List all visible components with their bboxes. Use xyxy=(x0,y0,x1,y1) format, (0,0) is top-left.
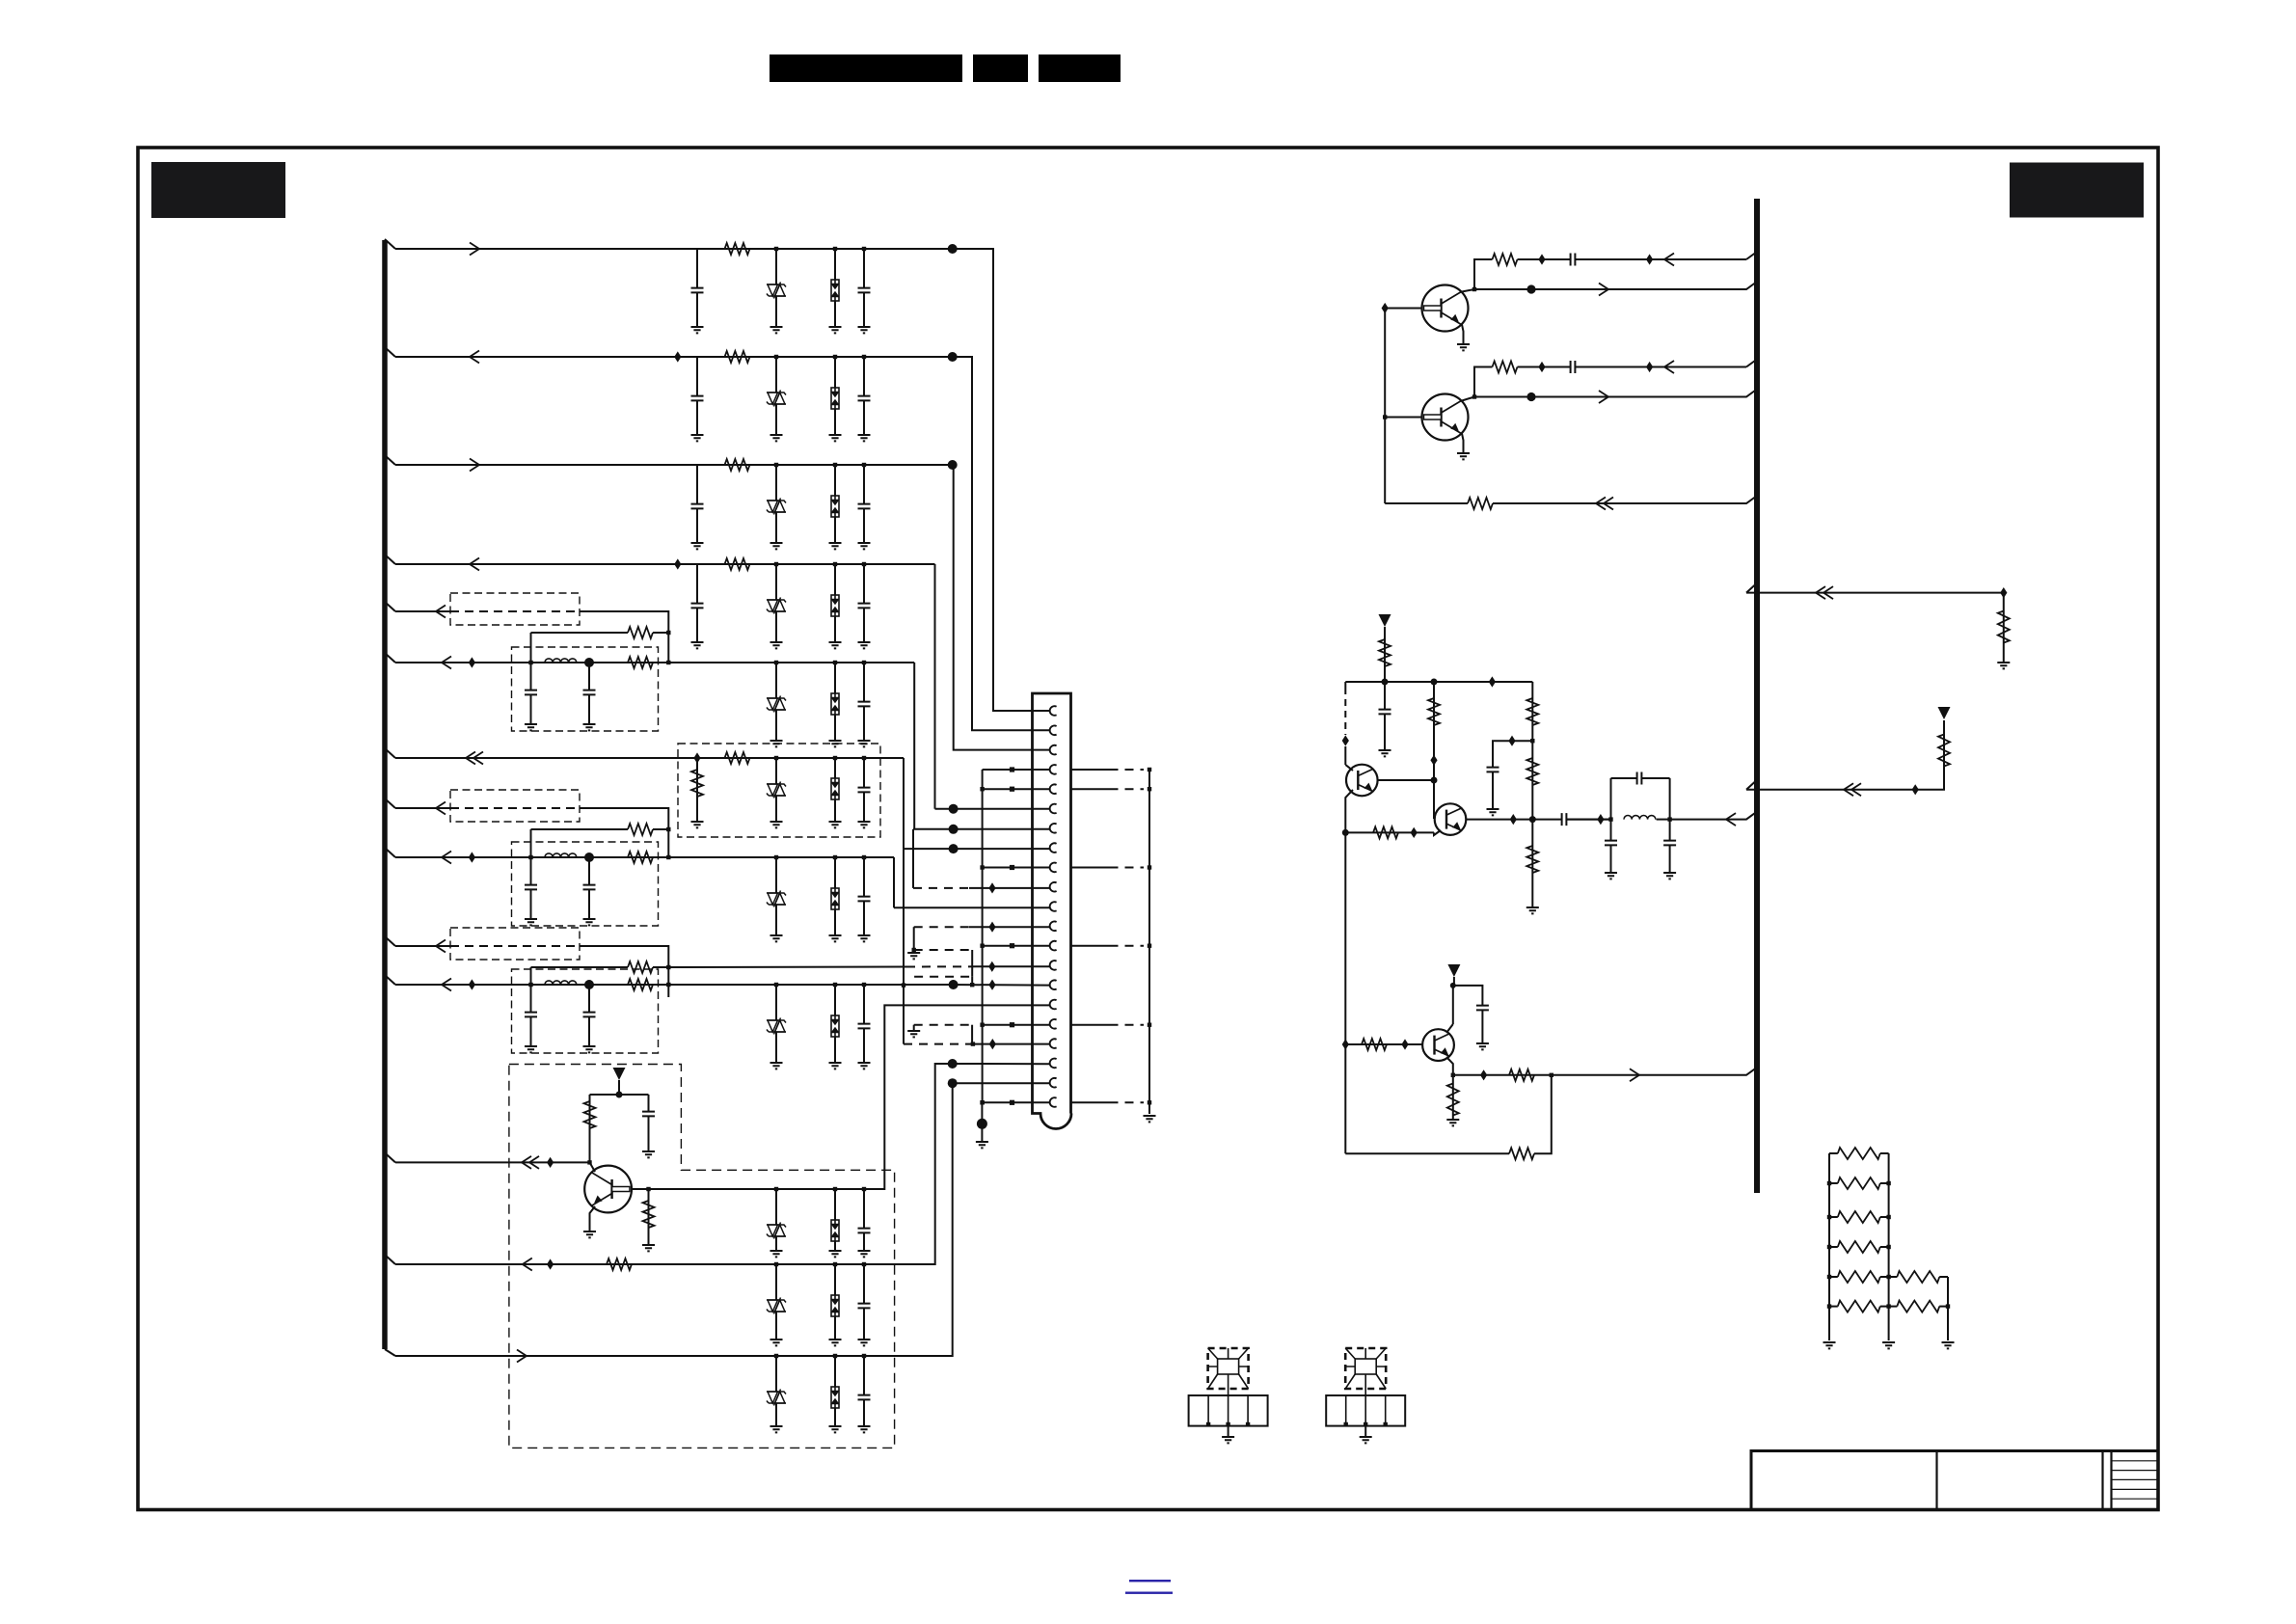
node C1 cap xyxy=(862,756,866,760)
node row net IN1 cap xyxy=(862,247,866,251)
cap lead row net IN3 xyxy=(696,465,698,543)
amp in wire xyxy=(1670,812,1757,820)
wire row net IN3 xyxy=(395,464,953,466)
ground q319.5 xyxy=(1457,344,1470,350)
ground row net IN4 c xyxy=(829,642,842,648)
ladder lead l1 xyxy=(1829,1152,1838,1154)
junction amp out chain xyxy=(1529,816,1536,823)
net tap pin12 xyxy=(988,922,995,933)
pin 6 contact xyxy=(1050,804,1057,814)
arrow q319.5 in xyxy=(1664,254,1674,266)
junction pin wire y880.1 xyxy=(949,844,959,853)
net tap left rail xyxy=(1342,735,1349,745)
ladder lead r6 xyxy=(1880,1306,1889,1308)
resistor R-c2 xyxy=(1526,758,1538,785)
filter FL1 pad c xyxy=(1246,1422,1250,1426)
junction pin wire y838.7 xyxy=(949,804,959,814)
row wire q319.5 out xyxy=(1474,282,1757,289)
wire pin13 shield dashed xyxy=(1110,945,1145,947)
ground row net IN2 a xyxy=(691,435,704,441)
riser net Y1 to pin7 xyxy=(913,663,915,829)
amp out wire 1 xyxy=(1467,819,1611,821)
tvs lead net T1 xyxy=(775,1189,777,1251)
fb wire bottom l xyxy=(1345,1152,1509,1154)
suppressor D-box row net IN3 xyxy=(831,496,839,517)
node net T2 cap xyxy=(862,1262,866,1266)
wire pin21 xyxy=(983,1101,1049,1103)
arrow net C1 xyxy=(466,752,475,765)
capacitor C-a row net IN2 xyxy=(691,395,704,400)
wire pin11 xyxy=(894,907,1049,908)
wire Q3 out xyxy=(1453,1068,1757,1075)
bus stub row net IN3 xyxy=(385,455,395,465)
junction lad r4 xyxy=(1886,1245,1890,1249)
base rail wire xyxy=(1384,309,1386,504)
capacitor C-b row net IN4 xyxy=(858,603,871,608)
ground pin17 grp xyxy=(907,1031,920,1037)
resistor R row net IN2 xyxy=(725,351,750,363)
pin 1 contact xyxy=(1050,706,1057,716)
pin 9 contact xyxy=(1050,863,1057,873)
transistor Q4 xyxy=(584,1166,632,1213)
wire net Y3 xyxy=(395,984,949,986)
arrow feedback xyxy=(1596,498,1606,510)
emitter wire Q1m xyxy=(1345,790,1353,832)
suppressor D-box C1 xyxy=(831,778,839,799)
arrow net AV1 xyxy=(436,606,446,618)
net tap q319.5 a xyxy=(1538,254,1545,264)
wire net T1 base xyxy=(395,1161,590,1163)
arrow net T2 xyxy=(523,1259,532,1271)
ground net T1 d xyxy=(858,1251,871,1257)
node net T3 tvs xyxy=(774,1354,778,1358)
cap-b lead net T2 xyxy=(863,1264,865,1340)
box diode lead row net IN1 xyxy=(834,249,836,327)
junction shield pin21 xyxy=(1148,1100,1151,1104)
node net Y1 tvs xyxy=(774,661,778,664)
ground filter r xyxy=(1663,873,1676,879)
cap lead net Y2 b xyxy=(588,857,590,919)
wire pin17 shield stub xyxy=(1071,1024,1110,1026)
chain wire vert xyxy=(1531,682,1533,907)
node row net IN2 cap xyxy=(862,355,866,359)
ground net T2 d xyxy=(858,1340,871,1345)
filter FL1 gnd lead xyxy=(1228,1426,1229,1436)
capacitor C-a row net IN3 xyxy=(691,503,704,508)
junction riser p15 row xyxy=(902,983,905,987)
filter FL1 pad b xyxy=(1226,1422,1229,1426)
capacitor C-Q4 xyxy=(642,1111,655,1116)
node net Y2 out xyxy=(666,855,670,859)
ground net T2 c xyxy=(829,1340,842,1345)
node Q4 base xyxy=(646,1187,650,1191)
ground filter FL2 xyxy=(1360,1437,1372,1443)
ladder lead r3 xyxy=(1880,1216,1889,1218)
cap-b lead net Y2 xyxy=(863,857,865,935)
chain wire q319.5 2 xyxy=(1576,258,1746,260)
tvs lead net T3 xyxy=(775,1356,777,1426)
node Q4 collector xyxy=(587,1160,591,1164)
pin 20 contact xyxy=(1050,1078,1057,1088)
ladder lead l2 xyxy=(1829,1182,1838,1184)
hyperlink underline 1 xyxy=(1129,1580,1171,1582)
tap pin21 xyxy=(1010,1100,1014,1105)
node collector q319.5 xyxy=(1472,287,1476,291)
res lead C1 xyxy=(696,758,698,822)
filter cap lead l xyxy=(1610,846,1612,872)
node net Y1 box xyxy=(833,661,837,664)
wire net AV2 boxed xyxy=(450,807,580,809)
filter right vert xyxy=(1669,778,1671,841)
suppressor D-box net Y3 xyxy=(831,1015,839,1037)
capacitor C-f1 net Y2 xyxy=(525,884,537,889)
cap-b lead net Y1 xyxy=(863,663,865,741)
capacitor C-b net T1 xyxy=(858,1228,871,1232)
supply rail Q4 xyxy=(590,1094,649,1096)
suppressor diode D row net IN2 xyxy=(767,391,786,407)
junction riser pin13 xyxy=(980,944,984,948)
node net Y1 out xyxy=(666,661,670,664)
resistor R-f net Y3 xyxy=(628,979,653,990)
tap pin5 xyxy=(1010,787,1014,792)
tvs lead net Y1 xyxy=(775,663,777,741)
junction Q3 fb xyxy=(1550,1073,1553,1077)
ground net Y2 f2 xyxy=(583,919,596,925)
branch wire cap xyxy=(1493,741,1532,808)
net tap rail Q3 xyxy=(1342,1039,1349,1049)
ground C1 d xyxy=(858,822,871,827)
pin 21 contact xyxy=(1050,1097,1057,1107)
junction row IN1 xyxy=(948,244,958,254)
suppressor D-box net T2 xyxy=(831,1295,839,1316)
resistor R-Q3o xyxy=(1509,1069,1534,1081)
wire net AV3 to pin14 a xyxy=(668,966,906,969)
collector wire Q3 xyxy=(1452,986,1454,1024)
capacitor C-fl xyxy=(1605,840,1617,845)
bus stub row net IN2 xyxy=(385,347,395,357)
ground filter l xyxy=(1605,873,1617,879)
wire pin17 grp drop xyxy=(971,1025,973,1044)
node row net IN1 box xyxy=(833,247,837,251)
net tap pin18 xyxy=(989,1039,996,1049)
ground C1 b xyxy=(770,822,783,827)
ground Q3 e xyxy=(1446,1120,1459,1125)
node bypass net AV2 xyxy=(666,827,670,831)
node net T3 box xyxy=(833,1354,837,1358)
wire pin18 xyxy=(966,1043,1049,1045)
cap-b lead row net IN1 xyxy=(863,249,865,327)
res lead sense1 xyxy=(2003,593,2005,662)
junction pin18 jog xyxy=(971,1042,975,1045)
bus stub net AV3 xyxy=(385,936,395,946)
arrow net Y1 xyxy=(442,657,451,669)
capacitor C-b row net IN2 xyxy=(858,395,871,400)
resistor R-s1 xyxy=(1998,611,2010,643)
net tap amp out a xyxy=(1510,814,1517,825)
wire sense2 xyxy=(1746,720,1944,790)
ground filter FL1 xyxy=(1222,1437,1234,1443)
junction shield pin4 xyxy=(1148,768,1151,771)
ladder lead r2 xyxy=(1880,1182,1889,1184)
suppressor D-box net Y2 xyxy=(831,888,839,909)
ground shield rail xyxy=(1144,1116,1156,1122)
riser net Y2 to pin11 xyxy=(893,857,895,907)
emitter wire Q4 xyxy=(590,1206,596,1232)
ground row net IN2 b xyxy=(770,435,783,441)
ground stub pin17 grp xyxy=(913,1025,915,1030)
junction net T2 pin19 xyxy=(948,1059,958,1069)
ground net Y1 f1 xyxy=(525,724,537,730)
arrow q432.5 out xyxy=(1599,391,1608,403)
connector J1 body xyxy=(1033,693,1072,1129)
wire pin9 shield stub xyxy=(1071,867,1110,869)
net tap amp out b xyxy=(1597,814,1604,825)
resistor R-fb2 xyxy=(1373,826,1398,838)
collector wire q319.5 xyxy=(1474,259,1493,289)
filter FL2 filter block xyxy=(1326,1395,1405,1426)
pin 7 contact xyxy=(1050,824,1057,833)
resistor R-byp net AV2 xyxy=(628,824,653,835)
filter FL1 pad a xyxy=(1206,1422,1210,1426)
node collector q432.5 xyxy=(1472,394,1476,398)
node C1 tvs xyxy=(774,756,778,760)
ground row net IN3 c xyxy=(829,543,842,549)
wire net AV3 to pin14 b xyxy=(976,965,1049,967)
ladder lead l4 xyxy=(1829,1246,1838,1248)
junction lad l2 xyxy=(1827,1181,1831,1185)
wire pin15 jog xyxy=(971,977,973,986)
ground branch xyxy=(1487,809,1499,815)
pin 12 contact xyxy=(1050,922,1057,932)
ground net Y1 c xyxy=(829,741,842,746)
capacitor C-ch q432.5 xyxy=(1570,361,1575,373)
junction divider base xyxy=(1431,777,1438,784)
transistor Q2m xyxy=(1435,803,1467,835)
ground net T2 b xyxy=(770,1340,783,1345)
ladder rail 1 xyxy=(1828,1153,1830,1340)
bypass vert net AV1 xyxy=(530,633,532,663)
junction shield pin13 xyxy=(1148,944,1151,948)
bus stub sense2 xyxy=(1746,780,1757,790)
wire pin4 shield dashed xyxy=(1110,769,1145,771)
dashed filter box net Y2 xyxy=(512,842,659,926)
bus stub sense1 xyxy=(1746,583,1757,593)
transistor Q1m xyxy=(1346,765,1378,797)
supply lead amp xyxy=(1384,627,1386,682)
ground row net IN1 d xyxy=(858,327,871,333)
wire net T2 pin19 xyxy=(953,1063,1049,1065)
collector diag q319.5 xyxy=(1462,289,1474,292)
wire row net IN4 xyxy=(395,563,935,565)
capacitor C-fr xyxy=(1663,840,1676,845)
ground net Y3 c xyxy=(829,1063,842,1069)
ladder lead l5 xyxy=(1829,1276,1838,1278)
net tap divider xyxy=(1430,755,1437,766)
pin 19 contact xyxy=(1050,1059,1057,1069)
wire net T2 to riser xyxy=(395,1064,953,1264)
capacitor C-f1 net Y1 xyxy=(525,690,537,694)
ground sense1 xyxy=(1997,663,2010,668)
wire pin17 grp dashed xyxy=(914,1024,972,1026)
ground net T1 c xyxy=(829,1251,842,1257)
bus stub net C1 xyxy=(385,748,395,758)
resistor R-byp net AV1 xyxy=(628,627,653,638)
riser net IN1 to pin1 xyxy=(953,249,1049,711)
wire net AV3 to pin14 dashed xyxy=(906,965,976,967)
ground pin12 xyxy=(907,953,920,959)
node row net IN3 tvs xyxy=(774,463,778,467)
bus stub net AV1 xyxy=(385,602,395,611)
junction lad r5 xyxy=(1886,1275,1890,1279)
wire pin12 dashed xyxy=(914,926,969,928)
capacitor C C1 xyxy=(858,787,871,792)
junction lad r3 xyxy=(1886,1215,1890,1219)
junction shield pin17 xyxy=(1148,1023,1151,1027)
wire pin13 xyxy=(983,945,1049,947)
net tap sense2 xyxy=(1912,784,1919,795)
tap pin13 xyxy=(1010,943,1014,948)
junction Q4 supply xyxy=(616,1092,623,1098)
suppressor D C1 xyxy=(767,782,786,798)
ground Q4 e xyxy=(583,1232,596,1237)
box diode lead row net IN3 xyxy=(834,465,836,543)
net tap row net IN4 xyxy=(674,558,681,569)
box diode lead net T2 xyxy=(834,1264,836,1340)
net tap q319.5 b xyxy=(1646,254,1653,264)
riser net IN4 to pin6 xyxy=(934,564,936,809)
arrow net AV3 xyxy=(436,940,446,953)
ground net Y3 d xyxy=(858,1063,871,1069)
ground net T3 b xyxy=(770,1426,783,1432)
base wire q319.5 xyxy=(1385,308,1422,310)
wire net Y1 xyxy=(395,662,914,663)
node net Y3 in xyxy=(528,983,532,987)
feedback wire left xyxy=(1385,502,1468,504)
chain wire q432.5 2 xyxy=(1576,366,1746,368)
wire net AV3 xyxy=(395,945,450,947)
ladder lead r5 xyxy=(1880,1276,1889,1278)
ground stub pin21 xyxy=(981,1102,983,1141)
cap lead net Y3 a xyxy=(530,985,532,1046)
resistor R-lad1 xyxy=(1838,1148,1880,1159)
bus kink q319.5 xyxy=(1746,252,1757,259)
base wire Q3 xyxy=(1345,1043,1423,1045)
node row net IN4 cap xyxy=(862,562,866,566)
cap lead net Y1 b xyxy=(588,663,590,724)
ground net T3 c xyxy=(829,1426,842,1432)
pin 11 contact xyxy=(1050,902,1057,911)
junction lad l3 xyxy=(1827,1215,1831,1219)
transistor Q q319.5 xyxy=(1422,285,1469,332)
bus stub net T3 xyxy=(385,1349,395,1356)
node row net IN3 box xyxy=(833,463,837,467)
ground row net IN1 c xyxy=(829,327,842,333)
wire sense1 xyxy=(1746,592,2004,594)
capacitor C-b net T3 xyxy=(858,1394,871,1399)
supply flag Q3 xyxy=(1447,964,1460,977)
node net T1 cap xyxy=(862,1187,866,1191)
filter FL2 gnd lead xyxy=(1364,1426,1366,1436)
dashed filter box net Y3 xyxy=(512,969,659,1053)
cap lead net Y2 a xyxy=(530,857,532,919)
collector link Q1m xyxy=(1345,765,1353,771)
node net Y2 box xyxy=(833,855,837,859)
suppressor diode D net Y3 xyxy=(767,1018,786,1035)
junction q319.5 xyxy=(1526,284,1535,293)
tap pin4 xyxy=(1010,767,1014,771)
filter FL2 body xyxy=(1345,1348,1386,1395)
resistor R-Q3f xyxy=(1509,1148,1534,1159)
net tap pin15 xyxy=(988,980,995,990)
junction lad r6 xyxy=(1886,1304,1890,1308)
ladder lead l3 xyxy=(1829,1216,1838,1218)
tvs lead net T2 xyxy=(775,1264,777,1340)
wire net AV3 boxed xyxy=(450,945,580,947)
ground net Y1 b xyxy=(770,741,783,746)
wire net AV1 drop xyxy=(580,611,668,663)
wire net T3 pin20 xyxy=(953,1082,1049,1084)
redacted title bar 2 xyxy=(973,55,1028,83)
ground Q4 b xyxy=(642,1245,655,1251)
pin 8 contact xyxy=(1050,843,1057,853)
resistor R-lad2 xyxy=(1838,1177,1880,1189)
cap lead Q4 xyxy=(648,1095,650,1151)
wire net Y3 to pin15 xyxy=(949,984,1050,987)
node bypass net AV3 xyxy=(666,965,670,969)
ground row net IN3 d xyxy=(858,543,871,549)
wire pin10 dashed xyxy=(913,887,969,889)
node net Y2 tvs xyxy=(774,855,778,859)
collector wire Q4 xyxy=(590,1162,596,1172)
node net T1 tvs xyxy=(774,1187,778,1191)
junction Q3 emitter xyxy=(1451,1073,1455,1077)
ground ladder 3 xyxy=(1942,1342,1955,1348)
tvs lead row net IN2 xyxy=(775,357,777,435)
dashed filter box net Y1 xyxy=(512,647,659,731)
net tap T1 xyxy=(547,1157,554,1168)
wire pin17 shield dashed xyxy=(1110,1024,1145,1026)
arrow q319.5 out xyxy=(1599,284,1608,296)
suppressor D-box row net IN2 xyxy=(831,388,839,409)
wire pin4 xyxy=(983,769,1049,771)
filter FL2 pad c xyxy=(1384,1422,1388,1426)
ground chain xyxy=(1526,907,1539,913)
left rail wire2 xyxy=(1344,746,1346,765)
arrow net Y3 xyxy=(442,979,451,991)
cap-b lead row net IN4 xyxy=(863,564,865,642)
ground row net IN4 a xyxy=(691,642,704,648)
suppressor D-box row net IN1 xyxy=(831,280,839,301)
pin 17 contact xyxy=(1050,1019,1057,1029)
capacitor C-b net Y2 xyxy=(858,896,871,901)
feedback wire right xyxy=(1493,496,1757,503)
capacitor C-coup xyxy=(1561,813,1566,826)
redacted title bar 3 xyxy=(1039,55,1121,83)
resistor R-ch q319.5 xyxy=(1493,254,1518,265)
supply flag Q4 xyxy=(613,1068,626,1080)
bypass wire net AV2 right xyxy=(653,828,668,830)
arrow net T3 xyxy=(517,1350,527,1363)
bus stub net Y3 xyxy=(385,975,395,985)
resistor R-byp net AV3 xyxy=(628,961,653,973)
wire pin4 shield stub xyxy=(1071,769,1110,771)
junction pin15 jog xyxy=(970,983,974,987)
node row net IN4 box xyxy=(833,562,837,566)
wire pin13 link xyxy=(914,949,973,951)
junction net T3 pin20 xyxy=(948,1078,958,1088)
arrow Q3 out xyxy=(1630,1069,1639,1081)
ladder lead 3 xyxy=(1939,1306,1948,1308)
